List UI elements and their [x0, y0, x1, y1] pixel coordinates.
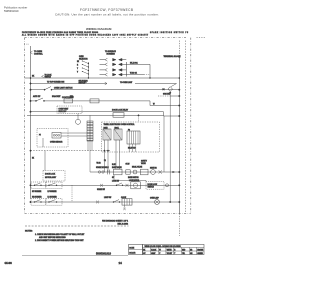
- svg-text:FGF379WECW, FGF379WECB: FGF379WECW, FGF379WECB: [80, 8, 133, 12]
- junction dot H3 left: [30, 89, 32, 91]
- wire y96 solid to bus: [170, 95, 179, 97]
- frame top right dashes: [197, 37, 207, 39]
- EOC connector J2 box: [127, 131, 140, 144]
- table row rule: [143, 250, 205, 252]
- indicator lamp row 1: [166, 184, 169, 187]
- wire dashed link between rows: [71, 185, 73, 202]
- svg-text:DOOR LOCK RELAY: DOOR LOCK RELAY: [112, 109, 129, 112]
- clock motor hatch: [125, 199, 130, 206]
- burner switch SW1 dots: [34, 185, 35, 186]
- svg-text:IGNITOR: IGNITOR: [150, 167, 157, 169]
- svg-text:CODE: CODE: [129, 247, 135, 249]
- wire from bracket bottom stub: [126, 74, 144, 76]
- selector switch S1 lever 4: [83, 72, 89, 75]
- component box on H5 right: [90, 99, 99, 103]
- light switch lever row 2: [114, 200, 120, 202]
- frame right dash-dot border: [190, 38, 192, 214]
- wire neutral dashed continuation below frame: [178, 214, 180, 237]
- burner switch SW4 dots: [48, 201, 49, 202]
- oven sensor probe circles: [53, 134, 55, 136]
- svg-text:BROWN: BROWN: [197, 249, 203, 251]
- wire ground dashed vertical: [184, 41, 186, 214]
- svg-text:GY: GY: [143, 253, 145, 255]
- svg-text:RF BURNER: RF BURNER: [32, 191, 42, 193]
- burner switch SW2 dashed box: [46, 182, 62, 189]
- ignitor row extra element: [159, 170, 163, 173]
- frame top dash-dot border: [25, 37, 187, 39]
- footer rule line: [22, 254, 128, 256]
- svg-text:BK: BK: [77, 61, 79, 63]
- svg-text:VIOLET: VIOLET: [167, 253, 172, 255]
- lock switch lever row 1: [117, 183, 123, 185]
- svg-text:NOTES:: NOTES:: [25, 231, 33, 233]
- switch S3 dots: [35, 100, 36, 101]
- junction dot below diamond: [169, 92, 171, 94]
- svg-text:BK-12 GA: BK-12 GA: [130, 61, 138, 64]
- burner switch SW1 dashed box: [31, 182, 46, 189]
- junction dot y105: [179, 105, 181, 107]
- svg-text:TO LOCK: TO LOCK: [45, 75, 53, 77]
- wire oven light feed vertical: [169, 91, 171, 202]
- svg-text:GREEN: GREEN: [197, 253, 202, 255]
- junction arrow on H8: [138, 115, 139, 116]
- svg-text:5995391919: 5995391919: [96, 251, 111, 255]
- oven sensor dashed box: [37, 128, 68, 147]
- oven lamp cross: [155, 200, 158, 203]
- frame bottom dashed border: [25, 213, 191, 215]
- wire dashed mid horizontal: [31, 150, 111, 152]
- wire ignitor row: [90, 171, 179, 173]
- svg-text:WHITE: WHITE: [167, 249, 172, 251]
- svg-text:MOTOR ASSY: MOTOR ASSY: [45, 176, 57, 179]
- svg-text:WIRE COLOR CODE - CODIGO DE CO: WIRE COLOR CODE - CODIGO DE COLORES: [145, 246, 182, 248]
- wire sensor to ladder 2: [61, 135, 87, 137]
- frame left dash-dot border: [24, 38, 26, 214]
- svg-text:BK: BK: [143, 249, 145, 251]
- svg-text:R-BK: R-BK: [112, 164, 116, 166]
- door lock motor dashed box: [43, 171, 65, 182]
- junction dots on dashed mid line: [104, 150, 105, 151]
- connector P1 bracket: [125, 62, 127, 77]
- wire bracket drop to bus: [149, 64, 151, 78]
- wire valve drop to row 1: [114, 175, 146, 182]
- wire burner row 1: [31, 184, 180, 186]
- svg-text:REV. A 10/02: REV. A 10/02: [117, 222, 128, 225]
- svg-text:5995391919: 5995391919: [4, 9, 19, 13]
- svg-text:BURNERS: BURNERS: [107, 54, 116, 56]
- svg-text:CONTROL: CONTROL: [34, 54, 43, 56]
- svg-text:14: 14: [119, 261, 123, 265]
- junction dot row 2 left: [30, 201, 32, 203]
- svg-text:SELECTOR: SELECTOR: [79, 58, 88, 60]
- wire lock switch pointer arrow: [42, 75, 44, 77]
- svg-text:DOOR LOCK: DOOR LOCK: [45, 174, 56, 176]
- burner switch SW2 dots: [48, 185, 49, 186]
- switch S3 lever on H5: [36, 98, 43, 101]
- junction dot H2 left: [30, 83, 31, 84]
- wire sensor left drop: [42, 138, 44, 147]
- junction dot row 1 left: [30, 185, 32, 187]
- wire neutral N vertical bus: [178, 56, 180, 214]
- oven sensor probe body: [52, 133, 61, 139]
- svg-text:1. CHECK GROUNDING AND POLARIT: 1. CHECK GROUNDING AND POLARITY OF WALL …: [35, 233, 85, 236]
- clock motor ground X: [123, 208, 126, 210]
- svg-text:CLOCK 1500W: CLOCK 1500W: [62, 97, 74, 99]
- spark module terminals: [98, 171, 100, 173]
- selector switch S1 rail dots: [88, 63, 89, 75]
- selector switch S1 lever 2: [83, 65, 89, 68]
- relay box K1 on H7: [113, 113, 124, 118]
- terminal block TB lug: [178, 56, 180, 58]
- door switch dashed box row 1: [146, 181, 164, 189]
- wire burner row 2: [31, 201, 180, 203]
- wire EOC drop 3: [115, 140, 117, 169]
- svg-text:WIRING DIAGRAM: WIRING DIAGRAM: [86, 27, 112, 31]
- wire EOC drop 4: [119, 140, 121, 169]
- wire door lock feed: [44, 151, 46, 171]
- svg-text:YEL: YEL: [182, 253, 185, 255]
- junction dots on H1: [30, 77, 32, 79]
- wire right side drop to ignitor row: [163, 116, 165, 172]
- junction dot y96: [179, 95, 181, 97]
- svg-text:W-12 GA: W-12 GA: [130, 72, 138, 75]
- connector diamond P4: [168, 87, 172, 92]
- EOC relay RL2 box: [114, 129, 122, 140]
- contact X1 row 1: [100, 184, 103, 187]
- svg-text:LIGHT SW: LIGHT SW: [104, 197, 112, 199]
- wire branch H8: [27, 114, 164, 116]
- svg-text:P4: P4: [163, 89, 165, 91]
- svg-text:RR BURNER: RR BURNER: [32, 197, 42, 199]
- control connector J1 pin ticks: [87, 123, 93, 141]
- fuse block F1 on H5: [64, 99, 73, 103]
- junction dot row 1 right: [179, 185, 181, 187]
- light switch dots row 2: [113, 201, 114, 202]
- wire ladder bottom stubs: [88, 141, 92, 172]
- svg-text:BRACKET: BRACKET: [52, 95, 61, 98]
- switch S2 terminal dots: [44, 89, 45, 90]
- burner switch SW1 contact: [35, 183, 41, 185]
- svg-text:LOCK MOTOR: LOCK MOTOR: [129, 180, 140, 182]
- wire EOC connector drops: [129, 144, 136, 152]
- connector P1 pin pair row 2: [100, 63, 106, 65]
- svg-text:SWITCH: SWITCH: [45, 77, 52, 79]
- svg-text:DOOR LOCK: DOOR LOCK: [148, 184, 159, 186]
- svg-text:TIMER, ELECTRONIC OVEN CONTROL: TIMER, ELECTRONIC OVEN CONTROL: [104, 124, 135, 126]
- wire H8 right drop to bus: [164, 112, 180, 116]
- selector switch S1 rail: [87, 62, 89, 78]
- control connector ladder J1: [87, 121, 93, 141]
- svg-text:BK: BK: [32, 158, 34, 160]
- svg-text:FAN 120V: FAN 120V: [59, 110, 68, 113]
- junction dot lamp row feed: [170, 201, 171, 202]
- svg-text:LOCK SW: LOCK SW: [112, 180, 120, 182]
- EOC connector J2 pins hatch: [129, 131, 138, 144]
- burner switch SW4 dashed box: [46, 199, 62, 206]
- burner switch SW3 dots: [34, 201, 35, 202]
- lock motor circle: [133, 183, 137, 187]
- burner switch SW3 contact: [35, 200, 41, 202]
- EOC control board dashed box: [102, 122, 160, 152]
- junction dot y116: [179, 115, 181, 117]
- svg-text:LF BURNER: LF BURNER: [48, 191, 58, 193]
- svg-text:OVEN SENSOR: OVEN SENSOR: [50, 142, 63, 144]
- switch S2 lever on H3: [45, 87, 52, 90]
- svg-text:ANTI-TIP: ANTI-TIP: [33, 95, 41, 98]
- wire branch H2: [31, 83, 108, 85]
- junction dot ignitor row right: [179, 171, 181, 173]
- ignitor row arrow: [173, 171, 176, 173]
- svg-text:LR BURNER: LR BURNER: [48, 197, 58, 199]
- wire branch H7: [31, 111, 164, 113]
- burner switch SW4 contact: [49, 200, 56, 202]
- bake ignitor circle: [151, 170, 156, 175]
- svg-text:L1: L1: [27, 44, 29, 46]
- junction dot H5 left: [30, 100, 32, 102]
- svg-text:GI-96: GI-96: [5, 261, 13, 265]
- connector P1 pin pair row 3: [100, 69, 106, 71]
- burner switch SW3 dashed box: [31, 199, 46, 206]
- clock motor ground stub: [124, 205, 126, 208]
- burner switch SW2 contact: [49, 183, 56, 185]
- table legend divider: [129, 249, 143, 251]
- wire branch H3: [31, 89, 180, 91]
- svg-text:P2: P2: [104, 160, 106, 162]
- table legend box: [129, 245, 143, 255]
- svg-text:Y: Y: [174, 253, 175, 255]
- lock motor box row 1: [131, 182, 141, 189]
- svg-text:TO SURFACE: TO SURFACE: [105, 50, 117, 53]
- svg-text:V: V: [77, 72, 78, 74]
- oven vent fan M1 stub wire: [77, 114, 79, 120]
- oven vent fan M1 dashed box: [57, 106, 82, 114]
- wire arrow to control: [31, 51, 33, 54]
- lock switch dots row 1: [116, 185, 117, 186]
- EOC relay RL2 hatch: [114, 129, 122, 140]
- wire H2 elbow to diamond: [171, 84, 177, 87]
- wire dashed drop from H8: [138, 115, 140, 122]
- clock motor hatched box row 2: [122, 199, 132, 206]
- broil valve box: [141, 169, 149, 175]
- connector P1 pin pair row 1: [100, 59, 106, 61]
- contact X2 row 1: [126, 184, 129, 187]
- selector switch S1 lever 1: [83, 61, 89, 64]
- table column rules: [151, 247, 197, 254]
- svg-text:SWITCH: SWITCH: [148, 187, 155, 189]
- page background: [0, 0, 218, 285]
- svg-text:COLOR: COLOR: [129, 252, 136, 254]
- svg-text:TO TOP BURNER IGN: TO TOP BURNER IGN: [47, 82, 65, 84]
- svg-text:V: V: [159, 253, 160, 255]
- wire sensor to ladder 1: [61, 132, 87, 134]
- selector switch S1 lever end dots: [82, 61, 83, 73]
- wire L1 vertical bus: [30, 46, 32, 199]
- svg-text:2. DISCONNECT POWER BEFORE SER: 2. DISCONNECT POWER BEFORE SERVICING THI…: [35, 240, 85, 242]
- oven lamp circle: [155, 200, 160, 205]
- svg-text:OVEN LIGHT SWITCH: OVEN LIGHT SWITCH: [54, 88, 73, 90]
- connector P1 pin pair row 4: [100, 74, 106, 76]
- svg-text:GN: GN: [190, 253, 192, 255]
- control connector J1 center pin rail: [89, 121, 91, 141]
- wire main horizontal bus H1: [25, 77, 179, 79]
- svg-text:AND UNIT BEFORE SERVICING: AND UNIT BEFORE SERVICING: [39, 236, 66, 239]
- oven vent fan M1 motor circle: [76, 119, 81, 124]
- wire color code table frame: [143, 244, 205, 254]
- junction dot row 2 right: [179, 201, 181, 203]
- gas valve box V1: [114, 169, 123, 175]
- wire bracket bottom dashed continuation: [144, 74, 150, 76]
- junction dot H7 left: [30, 111, 32, 113]
- contact X3 row 2: [96, 201, 99, 204]
- svg-text:TO OVEN LIGHT: TO OVEN LIGHT: [120, 82, 132, 84]
- wire H2 end arrow: [105, 82, 107, 85]
- wire H2 continuation right: [135, 83, 177, 85]
- selector switch S1 lever 3: [83, 68, 89, 71]
- capacitor style contacts: [108, 170, 110, 175]
- svg-text:CAUTION: Use the part number o: CAUTION: Use the part number on all labe…: [55, 13, 159, 17]
- svg-text:GY-W: GY-W: [126, 163, 131, 165]
- broil ignitor circle: [133, 170, 137, 174]
- wire EOC drop 1: [104, 140, 106, 172]
- table header rule: [143, 246, 205, 248]
- svg-text:Y: Y: [77, 68, 78, 70]
- svg-text:CLOCK: CLOCK: [121, 197, 126, 199]
- wire EOC drop 2: [107, 140, 109, 172]
- EOC relay RL1 box: [103, 129, 111, 140]
- small junction box: [126, 170, 130, 174]
- wire y96 dashed right: [158, 95, 170, 97]
- inner dashed separator line: [25, 225, 129, 227]
- wire ladder top stub: [89, 115, 91, 121]
- junction dot mid left: [30, 150, 31, 151]
- junction dot H3 right: [179, 89, 181, 91]
- wire branch H5: [31, 100, 151, 102]
- wire neutral dashed entry at top: [178, 41, 180, 57]
- wire from bracket top stub: [126, 63, 150, 65]
- svg-text:P7: P7: [39, 135, 41, 137]
- EOC relay RL1 hatch: [103, 129, 111, 140]
- wire H5 drop: [150, 101, 179, 106]
- svg-text:P/N 5995391919 SHEET 1 OF 1: P/N 5995391919 SHEET 1 OF 1: [102, 221, 128, 223]
